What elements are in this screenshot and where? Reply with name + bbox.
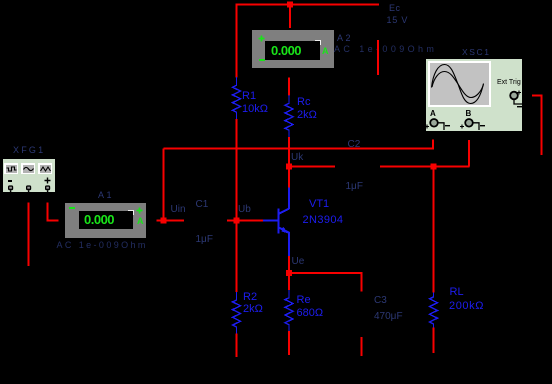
resistor Re (285, 290, 293, 331)
oscilloscope channel B label (466, 109, 472, 118)
ammeter A1 display (79, 211, 133, 229)
transistor Q1 VT1 2N3904 (263, 188, 289, 257)
node junction on top rail (287, 2, 293, 8)
ammeter A2 unit mark (322, 46, 329, 56)
wire output node down to RL (433, 167, 435, 293)
wire function generator common to ground (28, 203, 30, 267)
wire Ext Trig down to ground (541, 96, 543, 156)
node Uk (291, 153, 303, 163)
capacitor C2 (output coupling, invisible symbol) (348, 140, 361, 150)
wire top rail down to R1 (236, 5, 238, 78)
label XSC1 (462, 47, 491, 57)
wire oscilloscope channel B stub (468, 140, 470, 167)
wire emitter node down to Re (288, 273, 290, 290)
wire R1 bottom to base node (236, 119, 238, 222)
capacitor C1 (input coupling, invisible symbol) (196, 200, 209, 210)
label resistor RL (450, 287, 464, 298)
battery Ec 15V (invisible symbol) (389, 3, 401, 13)
node Uin (171, 205, 186, 215)
wire ammeter A1 right terminal to C1 (157, 220, 185, 222)
wire emitter to Ue node (288, 256, 290, 274)
node base junction Ub (234, 218, 240, 224)
function generator XFG1 body (3, 159, 55, 192)
ammeter A2 plus mark (258, 35, 266, 43)
caption ammeter A2 mode (334, 45, 437, 54)
wire C3 bottom plate to ground (360, 337, 362, 356)
oscilloscope screen (428, 61, 491, 107)
label resistor R2 (243, 292, 257, 303)
node emitter junction Ue (286, 270, 292, 276)
wire top power rail (236, 4, 380, 6)
wire collector node to C2 output cap (289, 166, 335, 168)
wire battery Ec negative lead to ground (377, 40, 379, 75)
label resistor Rc (297, 97, 310, 108)
XFG1 square wave button (4, 163, 18, 174)
ammeter A1 plus mark (136, 207, 144, 215)
oscilloscope channel B terminal (459, 117, 485, 131)
ammeter A1 body (65, 203, 146, 238)
label resistor R1 (242, 91, 256, 102)
oscilloscope waveform traces (430, 63, 489, 105)
wire C2 right plate to RL node (380, 166, 470, 168)
label A1 (98, 190, 114, 200)
wire RL bottom to ground (433, 328, 435, 354)
node output junction at RL (431, 164, 437, 170)
oscilloscope XSC1 body (426, 59, 522, 131)
XFG1 sine wave button (21, 163, 35, 174)
resistor R2 (233, 292, 241, 334)
resistor Rc (285, 95, 293, 137)
wire down to C3 top plate (360, 273, 362, 292)
oscilloscope channel A terminal (424, 117, 450, 131)
ammeter A1 unit mark (137, 216, 144, 226)
oscilloscope channel A label (430, 109, 436, 118)
ammeter A1 minus mark (69, 207, 75, 209)
ammeter A2 display (265, 41, 320, 60)
node collector junction Uk (286, 164, 292, 170)
wire oscilloscope channel A stub (432, 140, 434, 149)
XFG1 terminal positive (44, 185, 52, 194)
label A2 (337, 33, 353, 43)
ammeter A2 body (252, 30, 334, 68)
oscilloscope Ext Trig terminal (508, 89, 524, 108)
wire R2 bottom to ground (236, 334, 238, 358)
wire C1 right plate to transistor base (227, 220, 263, 222)
wire Rc bottom to collector (288, 137, 290, 188)
wire emitter node to bypass cap C3 (289, 272, 362, 274)
wire stub top rail to ammeter A2 top terminal (289, 5, 291, 29)
resistor R1 (233, 77, 241, 119)
oscilloscope Ext Trig label (497, 79, 521, 86)
XFG1 minus terminal mark (8, 180, 12, 181)
XFG1 terminal negative (7, 185, 15, 194)
XFG1 triangle wave button (38, 163, 52, 174)
wire function generator plus to ammeter A1 (47, 220, 58, 222)
wire input node up (163, 149, 165, 221)
wire ammeter A2 bottom to Rc (288, 78, 290, 96)
node Ub (238, 205, 251, 215)
XFG1 plus terminal mark (44, 177, 51, 184)
label XFG1 (13, 145, 45, 155)
label transistor VT1 (309, 199, 329, 210)
wire Re bottom to ground (288, 331, 290, 355)
label resistor Re (297, 295, 311, 306)
wire function generator plus terminal down (46, 203, 48, 222)
capacitor C3 (emitter bypass, invisible symbol) (374, 296, 387, 306)
node input junction Uin (161, 218, 167, 224)
wire oscilloscope Ext Trig (532, 95, 543, 97)
caption ammeter A1 mode (57, 241, 148, 250)
resistor RL (430, 293, 438, 328)
node Ue (292, 257, 305, 267)
wire base node down to R2 (236, 221, 238, 293)
ammeter A2 minus mark (259, 59, 265, 61)
wire input line to oscilloscope channel A (164, 148, 435, 150)
XFG1 terminal common (25, 185, 33, 194)
